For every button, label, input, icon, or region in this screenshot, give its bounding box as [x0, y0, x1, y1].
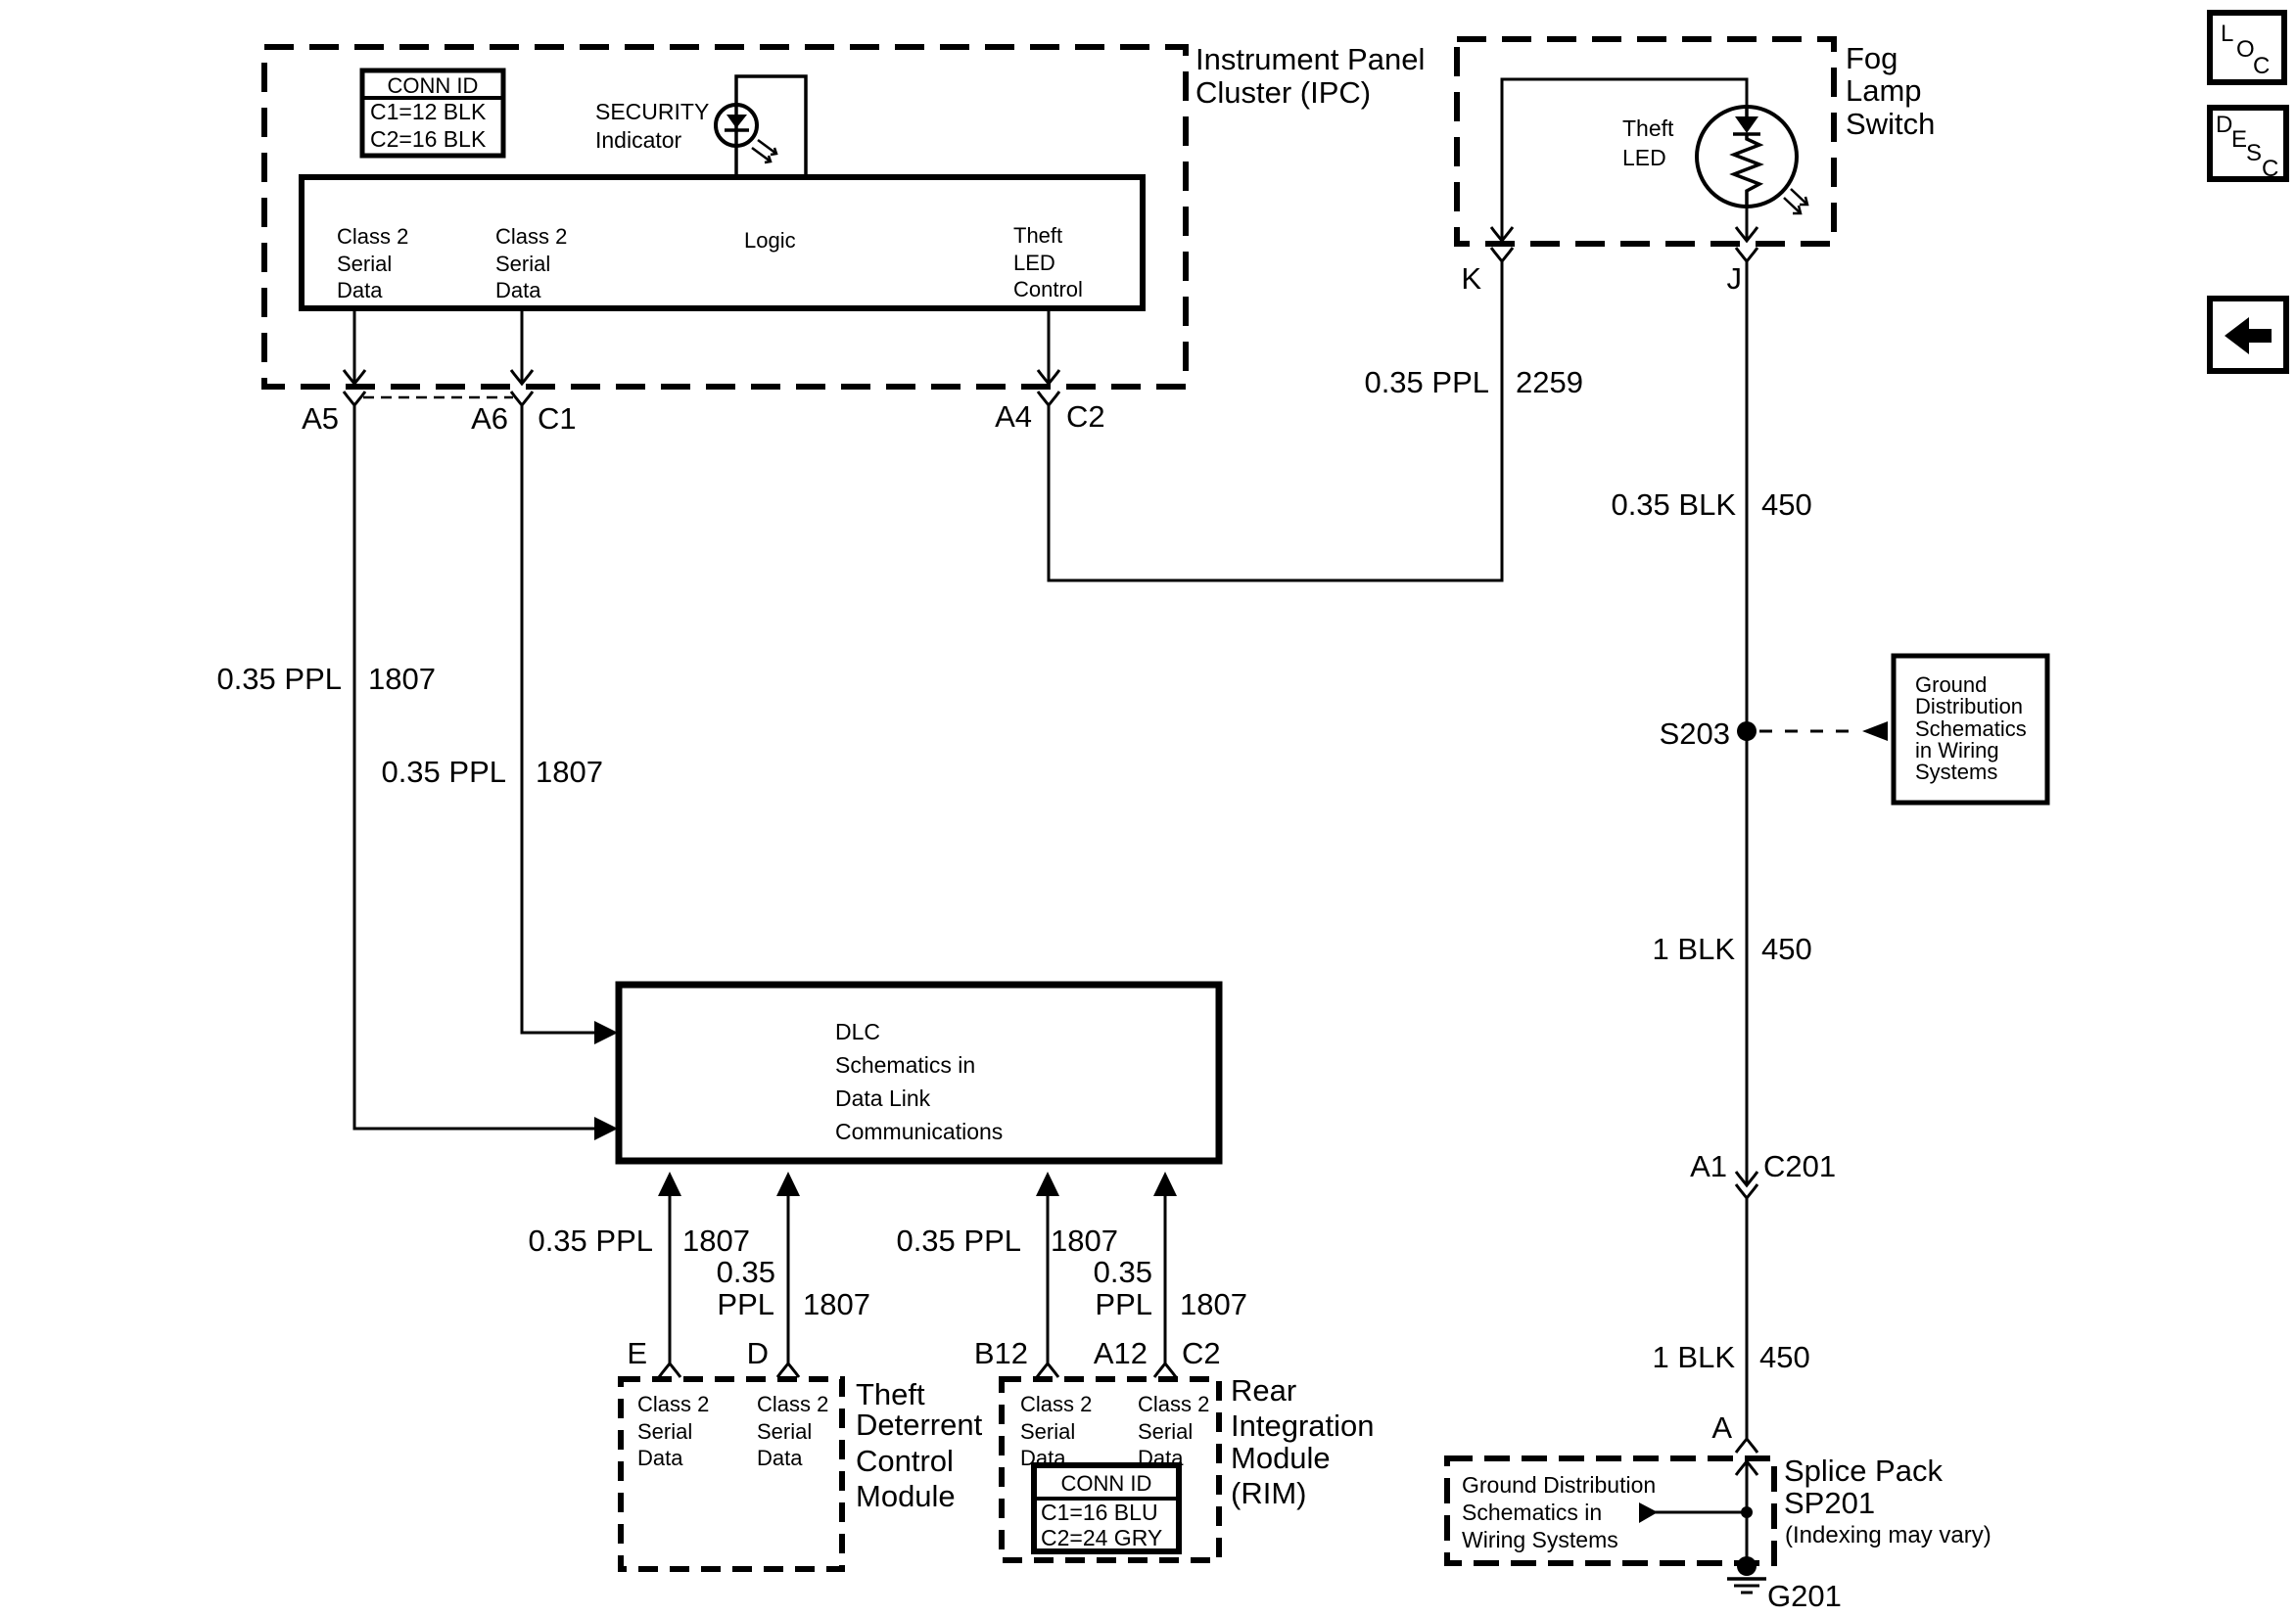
svg-text:K: K — [1461, 261, 1481, 296]
svg-text:Lamp: Lamp — [1846, 73, 1922, 108]
note Ground Distribution Schematics in Wiring Systems box — [1894, 656, 2047, 803]
svg-text:C2=24 GRY: C2=24 GRY — [1041, 1525, 1162, 1550]
connector fork B12 — [1037, 1363, 1058, 1377]
icon LOC box — [2210, 13, 2284, 82]
note Ground Distribution Schematics in Wiring Systems (splice pack) — [1462, 1472, 1656, 1552]
ground G201 — [1727, 1556, 1842, 1613]
svg-text:Theft: Theft — [1013, 223, 1062, 248]
svg-text:C1=16 BLU: C1=16 BLU — [1041, 1500, 1158, 1525]
svg-text:(Indexing may vary): (Indexing may vary) — [1785, 1522, 1991, 1548]
label 0.35 BLK 450 — [1611, 487, 1811, 522]
svg-text:A6: A6 — [471, 401, 508, 436]
wire S203 reference dashed — [1759, 721, 1888, 741]
svg-text:J: J — [1727, 261, 1743, 296]
label 0.35 PPL 1807 (D wire) — [717, 1255, 870, 1321]
connector dashed link A5-A6 — [363, 396, 513, 399]
label Splice Pack SP201 — [1784, 1454, 1991, 1548]
svg-text:0.35 PPL: 0.35 PPL — [528, 1224, 653, 1258]
label Logic — [744, 228, 796, 253]
wire IPC pin A4 stub — [1038, 308, 1059, 384]
CONN ID table (IPC) — [362, 70, 503, 156]
wire B12 to DLC — [1036, 1172, 1059, 1363]
module Theft Deterrent Control Module dashed box — [621, 1379, 842, 1569]
connector fork A5 — [344, 392, 365, 405]
svg-text:A5: A5 — [302, 401, 339, 436]
svg-text:Data: Data — [337, 278, 383, 302]
svg-text:Data Link: Data Link — [835, 1086, 931, 1111]
label SECURITY Indicator — [595, 99, 709, 153]
svg-text:Data: Data — [637, 1446, 683, 1470]
svg-text:Class 2: Class 2 — [1138, 1392, 1209, 1416]
note DLC Schematics in Data Link Communications box — [619, 985, 1219, 1161]
connector A1 C201 inline — [1736, 1172, 1757, 1439]
svg-text:E: E — [627, 1336, 647, 1370]
svg-text:Wiring Systems: Wiring Systems — [1462, 1527, 1618, 1552]
wire A5 to DLC — [354, 405, 618, 1140]
label Theft Deterrent Control Module — [856, 1377, 983, 1513]
svg-text:450: 450 — [1759, 1340, 1810, 1374]
label 0.35 PPL 1807 (B12 wire) — [896, 1224, 1118, 1258]
label Class 2 Serial Data (RIM pin B12) — [1020, 1392, 1092, 1470]
label 0.35 PPL 1807 (E wire) — [528, 1224, 750, 1258]
IPC logic box — [302, 177, 1143, 308]
connector fork E — [659, 1363, 680, 1377]
svg-text:Data: Data — [495, 278, 541, 302]
label 0.35 PPL 1807 (C1 wire) — [381, 755, 603, 789]
svg-text:1807: 1807 — [536, 755, 603, 789]
module Fog Lamp Switch dashed box — [1457, 39, 1834, 244]
svg-text:450: 450 — [1761, 932, 1812, 966]
svg-text:Serial: Serial — [757, 1419, 812, 1444]
svg-text:A12: A12 — [1094, 1336, 1148, 1370]
svg-text:Switch: Switch — [1846, 107, 1935, 141]
svg-text:Indicator: Indicator — [595, 127, 682, 153]
svg-text:C: C — [2253, 53, 2270, 79]
svg-text:Theft: Theft — [856, 1377, 925, 1411]
svg-text:Class 2: Class 2 — [337, 224, 408, 249]
svg-text:Deterrent: Deterrent — [856, 1408, 983, 1442]
wire D to DLC — [776, 1172, 800, 1363]
svg-text:A1: A1 — [1690, 1149, 1727, 1183]
svg-text:Rear: Rear — [1231, 1373, 1296, 1408]
svg-text:0.35 BLK: 0.35 BLK — [1611, 487, 1736, 522]
svg-text:C2: C2 — [1066, 399, 1105, 434]
label Class 2 Serial Data (TDCM pin D) — [757, 1392, 828, 1470]
wire E to DLC — [658, 1172, 681, 1363]
icon back arrow box — [2210, 299, 2286, 371]
svg-text:C201: C201 — [1763, 1149, 1836, 1183]
wire C2 (RIM) to DLC — [1153, 1172, 1177, 1363]
label 1 BLK 450 (upper) — [1653, 932, 1812, 966]
connector fork D — [777, 1363, 799, 1377]
icon DESC box — [2210, 108, 2286, 182]
wire theft LED to pin J — [1736, 207, 1757, 241]
connector fork J — [1736, 248, 1757, 261]
svg-text:1 BLK: 1 BLK — [1653, 932, 1736, 966]
svg-text:O: O — [2236, 36, 2255, 63]
label Rear Integration Module (RIM) — [1231, 1373, 1375, 1510]
svg-text:1 BLK: 1 BLK — [1653, 1340, 1736, 1374]
node S203 — [1660, 716, 1757, 751]
svg-text:C2: C2 — [1182, 1336, 1221, 1370]
wire LED loop — [736, 76, 806, 177]
svg-text:PPL: PPL — [717, 1287, 774, 1321]
svg-text:Splice Pack: Splice Pack — [1784, 1454, 1943, 1488]
svg-text:C: C — [2262, 156, 2278, 182]
svg-text:Serial: Serial — [1020, 1419, 1075, 1444]
svg-text:PPL: PPL — [1095, 1287, 1152, 1321]
svg-text:Fog: Fog — [1846, 41, 1898, 75]
svg-text:DLC: DLC — [835, 1019, 880, 1044]
svg-text:Class 2: Class 2 — [495, 224, 567, 249]
svg-text:Data: Data — [757, 1446, 803, 1470]
svg-text:1807: 1807 — [682, 1224, 750, 1258]
svg-text:0.35 PPL: 0.35 PPL — [896, 1224, 1021, 1258]
label 1 BLK 450 (lower) — [1653, 1340, 1810, 1374]
label Fog Lamp Switch — [1846, 41, 1935, 141]
svg-text:0.35: 0.35 — [717, 1255, 775, 1289]
label Class 2 Serial Data (pin A5) — [337, 224, 408, 302]
svg-text:G201: G201 — [1767, 1579, 1842, 1613]
svg-text:Serial: Serial — [495, 252, 550, 276]
connector fork K — [1491, 248, 1513, 261]
svg-text:450: 450 — [1761, 487, 1812, 522]
label Theft LED — [1622, 115, 1674, 170]
svg-text:Theft: Theft — [1622, 115, 1674, 141]
connector fork A6/C1 — [511, 392, 533, 405]
label 0.35 PPL 2259 — [1364, 365, 1583, 399]
svg-text:D: D — [747, 1336, 769, 1370]
svg-text:Schematics in: Schematics in — [1462, 1500, 1602, 1525]
connector fork A (splice pack) — [1736, 1439, 1757, 1453]
svg-text:C1=12 BLK: C1=12 BLK — [370, 99, 487, 124]
node splice junction — [1741, 1506, 1753, 1518]
svg-text:SP201: SP201 — [1784, 1486, 1875, 1520]
svg-text:Class 2: Class 2 — [757, 1392, 828, 1416]
wire fog lamp internal — [1491, 79, 1747, 241]
svg-text:Logic: Logic — [744, 228, 796, 253]
svg-text:Instrument Panel: Instrument Panel — [1195, 42, 1425, 76]
svg-text:Cluster (IPC): Cluster (IPC) — [1195, 75, 1371, 110]
svg-text:Class 2: Class 2 — [637, 1392, 709, 1416]
label Instrument Panel Cluster (IPC) — [1195, 42, 1425, 110]
svg-text:CONN ID: CONN ID — [388, 73, 479, 98]
label Class 2 Serial Data (pin A6/C1) — [495, 224, 567, 302]
wire splice reference arrow — [1639, 1502, 1747, 1523]
Theft LED symbol — [1697, 107, 1807, 213]
svg-text:Control: Control — [1013, 277, 1083, 301]
svg-text:Systems: Systems — [1915, 760, 1997, 784]
svg-text:CONN ID: CONN ID — [1061, 1471, 1152, 1496]
svg-text:Integration: Integration — [1231, 1409, 1375, 1443]
svg-text:Class 2: Class 2 — [1020, 1392, 1092, 1416]
svg-text:Communications: Communications — [835, 1119, 1003, 1144]
svg-text:C2=16 BLK: C2=16 BLK — [370, 126, 487, 152]
svg-text:Serial: Serial — [637, 1419, 692, 1444]
wire IPC pin A5 stub — [344, 308, 365, 384]
wire A4/C2 to fog lamp switch pin K — [1049, 261, 1502, 580]
module Splice Pack SP201 dashed box — [1447, 1458, 1774, 1563]
label Class 2 Serial Data (RIM pin A12/C2) — [1138, 1392, 1209, 1470]
svg-text:LED: LED — [1622, 145, 1666, 170]
svg-text:E: E — [2231, 126, 2247, 153]
svg-text:SECURITY: SECURITY — [595, 99, 709, 124]
svg-text:S: S — [2246, 140, 2262, 166]
svg-text:Control: Control — [856, 1444, 954, 1478]
svg-text:Module: Module — [1231, 1441, 1331, 1475]
svg-text:(RIM): (RIM) — [1231, 1476, 1306, 1510]
svg-text:0.35: 0.35 — [1094, 1255, 1152, 1289]
connector fork A4/C2 — [1038, 392, 1059, 405]
svg-text:D: D — [2216, 112, 2232, 138]
svg-text:0.35 PPL: 0.35 PPL — [1364, 365, 1489, 399]
svg-text:Serial: Serial — [1138, 1419, 1193, 1444]
wire C1 to DLC — [522, 405, 618, 1044]
svg-text:0.35 PPL: 0.35 PPL — [216, 662, 342, 696]
svg-text:A: A — [1711, 1410, 1732, 1445]
svg-text:Module: Module — [856, 1479, 956, 1513]
label 0.35 PPL 1807 (A5 wire) — [216, 662, 436, 696]
svg-text:Serial: Serial — [337, 252, 392, 276]
svg-text:L: L — [2221, 21, 2233, 47]
svg-text:1807: 1807 — [1180, 1287, 1247, 1321]
connector fork C2 (RIM) — [1154, 1363, 1176, 1377]
CONN ID table (RIM) — [1034, 1465, 1179, 1551]
svg-text:A4: A4 — [995, 399, 1032, 434]
module Instrument Panel Cluster (IPC) dashed box — [264, 47, 1186, 387]
svg-text:2259: 2259 — [1516, 365, 1583, 399]
svg-text:S203: S203 — [1660, 716, 1730, 751]
svg-text:B12: B12 — [974, 1336, 1028, 1370]
svg-text:1807: 1807 — [368, 662, 436, 696]
svg-text:Schematics in: Schematics in — [835, 1052, 975, 1078]
svg-text:C1: C1 — [538, 401, 577, 436]
svg-text:1807: 1807 — [803, 1287, 870, 1321]
svg-text:1807: 1807 — [1051, 1224, 1118, 1258]
LED SECURITY indicator symbol — [716, 105, 776, 162]
label 0.35 PPL 1807 (C2 wire) — [1094, 1255, 1247, 1321]
label Class 2 Serial Data (TDCM pin E) — [637, 1392, 709, 1470]
wire IPC pin A6 stub — [511, 308, 533, 384]
label Theft LED Control — [1013, 223, 1083, 301]
module Rear Integration Module dashed box — [1002, 1379, 1219, 1560]
wire into splice pack — [1736, 1461, 1757, 1566]
svg-text:0.35 PPL: 0.35 PPL — [381, 755, 506, 789]
svg-text:Ground Distribution: Ground Distribution — [1462, 1472, 1656, 1498]
svg-text:Distribution: Distribution — [1915, 694, 2023, 718]
svg-text:LED: LED — [1013, 251, 1055, 275]
wire J ground run — [1746, 261, 1749, 1185]
